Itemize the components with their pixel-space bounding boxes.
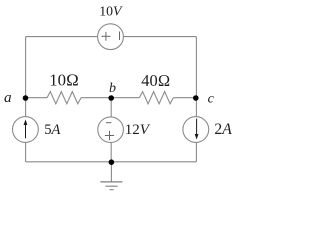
arrow of 5A current source (up) bbox=[24, 119, 28, 138]
wire 2A source to bottom-right corner bbox=[195, 142, 197, 161]
wire node b to 40ohm resistor bbox=[111, 97, 139, 99]
svg-text:10Ω: 10Ω bbox=[49, 71, 79, 90]
resistor R1 10ohm zigzag bbox=[47, 92, 81, 104]
voltage source V2 12V circle bbox=[98, 117, 124, 143]
wire 12V source to bottom ground node bbox=[110, 143, 112, 162]
wire 10ohm resistor to node b bbox=[81, 97, 111, 99]
wire right rail down to node c bbox=[195, 37, 197, 98]
svg-text:10V: 10V bbox=[99, 4, 123, 19]
wire 40ohm resistor to node c bbox=[173, 97, 196, 99]
wire bottom rail bbox=[26, 161, 197, 163]
svg-text:a: a bbox=[4, 89, 12, 106]
svg-text:b: b bbox=[109, 81, 116, 96]
plus/minus marks of 12V source bbox=[105, 123, 114, 140]
wire node a down to 5A source bbox=[25, 98, 27, 117]
wire node c down to 2A source bbox=[195, 98, 197, 117]
svg-text:40Ω: 40Ω bbox=[141, 71, 170, 90]
ground symbol bbox=[100, 182, 122, 190]
svg-text:c: c bbox=[208, 91, 215, 106]
plus/minus marks of 10V source bbox=[101, 32, 119, 41]
wire top right segment from 10V source bbox=[123, 36, 196, 38]
wire 5A source to bottom-left corner bbox=[25, 142, 27, 161]
svg-text:2A: 2A bbox=[214, 121, 232, 138]
node a junction dot bbox=[23, 95, 29, 101]
node b junction dot bbox=[108, 95, 114, 101]
svg-text:12V: 12V bbox=[125, 122, 151, 138]
current source I2 2A circle bbox=[183, 117, 209, 143]
arrow of 2A current source (down) bbox=[195, 119, 199, 140]
wire top-left rail (node a up to top wire) bbox=[25, 37, 27, 98]
node c junction dot bbox=[193, 95, 199, 101]
current source I1 5A circle bbox=[13, 117, 39, 143]
wire ground stem bbox=[110, 162, 112, 182]
wire node b down to 12V source bbox=[110, 98, 112, 117]
ground node junction dot bbox=[109, 159, 115, 165]
resistor R2 40ohm zigzag bbox=[139, 92, 173, 104]
voltage source V1 10V circle bbox=[98, 24, 124, 50]
svg-text:5A: 5A bbox=[44, 122, 60, 138]
wire node a to 10ohm resistor bbox=[26, 97, 47, 99]
wire top left segment to 10V source bbox=[26, 36, 98, 38]
